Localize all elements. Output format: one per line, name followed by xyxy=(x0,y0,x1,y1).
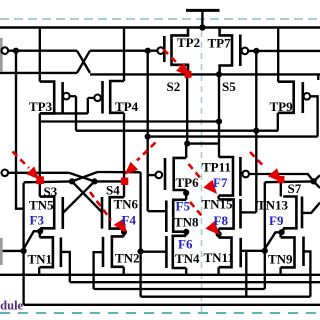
wire TN9 source xyxy=(279,267,281,274)
wire TN15 source link xyxy=(217,229,219,238)
fault arrow S4 head xyxy=(125,162,139,175)
transistor TP3 xyxy=(40,82,76,114)
wire TP9 gate corner down xyxy=(310,96,317,136)
wire TN11 source xyxy=(217,267,219,275)
wire TN1 gate jog xyxy=(61,252,70,282)
wire S2 net down xyxy=(186,74,188,143)
svg-text:TN9: TN9 xyxy=(268,252,293,267)
node TN13 source xyxy=(278,229,284,235)
bus line 2 xyxy=(70,281,320,283)
transistor TN11 xyxy=(219,238,241,268)
wire S4 lower right xyxy=(95,180,125,182)
fault arrow F8 head xyxy=(205,221,219,235)
wire S7 lower xyxy=(265,180,314,183)
wire left bubble net down xyxy=(16,51,24,209)
fault arrow F7 dashes xyxy=(189,164,203,180)
fault arrow F7 head xyxy=(203,180,217,194)
node bus y130 xyxy=(253,128,259,134)
transistor TN8 xyxy=(166,200,186,232)
transistor TN1 xyxy=(40,237,61,267)
wire right edge nub xyxy=(317,74,319,80)
svg-text:TP11: TP11 xyxy=(202,160,231,175)
svg-text:S2: S2 xyxy=(167,79,181,94)
svg-text:F3: F3 xyxy=(30,213,45,228)
svg-text:F8: F8 xyxy=(214,213,229,228)
svg-text:TP4: TP4 xyxy=(115,99,139,114)
node TN4 gate xyxy=(138,248,144,254)
fault arrow S4 dashes xyxy=(137,143,156,161)
wire TP4 drain from rail xyxy=(123,28,125,82)
bus line 3 xyxy=(94,288,265,290)
node left gate wire xyxy=(13,48,19,54)
svg-text:TP3: TP3 xyxy=(29,99,53,114)
fault arrow F4 dashes xyxy=(90,192,111,220)
fault arrow S3 head xyxy=(26,166,39,179)
wire TP3 drain to TN5 xyxy=(39,113,41,196)
wire TP9 drain from rail xyxy=(277,28,279,82)
wire TP7 gate dot net down xyxy=(255,51,257,213)
wire TP7 bubble to right edge xyxy=(248,50,320,52)
node TN11 gate xyxy=(262,248,268,254)
wire S3 net down to bus4 xyxy=(139,172,141,296)
wire mid row S2 S5 xyxy=(90,73,320,75)
wire TN1 source xyxy=(38,267,40,275)
fault arrow F4 head xyxy=(114,218,127,233)
wire bus y121 xyxy=(40,120,219,122)
wire S7 fan upper xyxy=(314,175,320,181)
node bus y121 S5 xyxy=(216,118,222,124)
svg-text:S4: S4 xyxy=(106,183,120,198)
node TN6 source xyxy=(121,229,127,235)
wire bus y136 xyxy=(148,135,318,137)
cropped gate bar lower left xyxy=(0,238,3,265)
node X right xyxy=(311,178,317,184)
transistor TN9 xyxy=(281,237,304,268)
node TN8 source xyxy=(183,229,189,235)
wire X leg to TN6 gate xyxy=(72,181,102,212)
module boundary dashed vertical xyxy=(201,20,203,312)
wire TN13 drain xyxy=(280,182,282,196)
node S5 junction xyxy=(216,71,222,77)
svg-text:F9: F9 xyxy=(269,213,284,228)
node X left 2 xyxy=(91,178,97,184)
wire TP4 drain to TN6 S4 xyxy=(123,113,125,197)
wire TP6 bubble feed xyxy=(148,174,156,176)
cropped gate bubble upper left xyxy=(2,47,9,54)
wire S5 net down xyxy=(218,74,220,157)
wire TN2 source xyxy=(123,267,125,275)
wire S3 lower horizontal xyxy=(24,180,72,183)
svg-text:TP7: TP7 xyxy=(208,36,232,51)
svg-text:TN1: TN1 xyxy=(28,252,53,267)
wire S7 fan lower xyxy=(314,181,320,188)
wire TN4 source xyxy=(185,268,187,275)
wire TN6 source link xyxy=(123,229,125,237)
node bus y143 xyxy=(184,141,190,147)
svg-text:TP6: TP6 xyxy=(176,175,200,190)
wire input left xyxy=(0,250,24,252)
transistor TP2 xyxy=(157,28,188,75)
node TP6 TN8 xyxy=(183,190,189,196)
node TN15 source xyxy=(216,231,222,237)
svg-text:TN6: TN6 xyxy=(114,197,139,212)
node X left 1 xyxy=(69,178,75,184)
transistor TN6 xyxy=(102,197,124,229)
node input left xyxy=(21,248,27,254)
svg-text:TN8: TN8 xyxy=(174,215,199,230)
transistor TN13 xyxy=(283,197,302,229)
wire X leg to TN5 gate xyxy=(63,181,95,213)
svg-text:TN4: TN4 xyxy=(175,251,200,266)
wire TN11 gate bus4 drop xyxy=(245,251,247,297)
wire TN13 source link xyxy=(265,228,283,248)
wire TP2 gate net down xyxy=(147,51,149,212)
VDD rail xyxy=(0,26,320,29)
transistor TP11 xyxy=(219,157,249,196)
fault arrow S2 dashes xyxy=(164,50,181,67)
cropped gate bubble left mid xyxy=(2,170,9,177)
wire crossover X top-left xyxy=(77,51,90,73)
svg-text:TP9: TP9 xyxy=(270,99,294,114)
wire TN8 source link xyxy=(185,232,187,236)
wire TP6 drain top xyxy=(185,144,187,158)
node bus y136 xyxy=(145,134,151,140)
transistor TN4 xyxy=(166,236,186,268)
wire crossover X bottom-left xyxy=(77,51,90,73)
transistor TN2 xyxy=(103,236,124,267)
wire bus y143 xyxy=(187,142,219,144)
svg-text:-dule: -dule xyxy=(0,298,24,312)
svg-text:TN11: TN11 xyxy=(204,250,234,265)
svg-text:F7: F7 xyxy=(213,175,228,190)
svg-text:F5: F5 xyxy=(176,199,191,214)
transistor TP9 xyxy=(278,82,310,113)
svg-text:F4: F4 xyxy=(122,213,137,228)
wire S3 lower from corner xyxy=(22,183,24,305)
svg-text:S5: S5 xyxy=(222,79,236,94)
wire S3 crossover diag up xyxy=(72,172,98,182)
node TP2 gate wire xyxy=(145,48,151,54)
transistor TN15 xyxy=(219,199,241,229)
wire TN9 gate jog xyxy=(304,251,311,296)
fault arrow S7 head xyxy=(268,168,282,182)
wire X to TP2 bubble xyxy=(90,50,157,52)
wire S7 net down xyxy=(264,182,266,289)
wire left lower to X xyxy=(0,72,77,74)
wire TP11 bubble to S7 xyxy=(249,174,313,181)
module boundary dashed top xyxy=(0,18,320,20)
wire TP6 TN8 link xyxy=(185,190,187,200)
wire TN4 gate xyxy=(141,251,167,253)
label module cropped xyxy=(0,298,24,312)
wire bus y130 xyxy=(76,130,278,132)
wire S3 crossover diag down xyxy=(69,173,95,182)
wire TP9 drain to bus xyxy=(277,113,279,131)
bus line 4 xyxy=(141,296,311,298)
fault arrow S7 dashes xyxy=(250,152,264,166)
wire TN5 TN1 link xyxy=(39,231,41,237)
wire S3 upper from bubble xyxy=(8,172,69,174)
wire TP3 drain from rail xyxy=(39,28,41,82)
wire TN13 gate diag xyxy=(302,203,320,213)
wire gate left bubble to X xyxy=(8,50,77,52)
svg-text:TN5: TN5 xyxy=(29,198,54,213)
wire TN11 gate xyxy=(241,250,265,252)
wire TN8 gate feed xyxy=(148,210,167,212)
wire TN15 gate feed xyxy=(241,211,257,213)
wire TN2 gate jog xyxy=(94,252,103,289)
fault arrow S3 dashes xyxy=(13,152,30,169)
wire S3 upper right xyxy=(98,171,141,174)
wire TP3 gate vertical xyxy=(75,96,77,131)
svg-text:TN13: TN13 xyxy=(257,198,289,213)
fault arrow F8 dashes xyxy=(190,202,204,219)
bus line 1 VSS xyxy=(0,274,320,276)
bottom rail xyxy=(24,304,320,306)
transistor TP7 xyxy=(220,28,249,75)
node TN5 source xyxy=(37,228,43,234)
transistor TP4 xyxy=(88,81,124,114)
transistor TN5 xyxy=(40,197,63,229)
svg-text:S7: S7 xyxy=(288,181,302,196)
transistor TP6 xyxy=(156,158,187,190)
svg-text:TN15: TN15 xyxy=(202,197,234,212)
wire TP3 stub extension to TP4 gate xyxy=(40,112,88,114)
svg-text:TP2: TP2 xyxy=(177,35,200,50)
module boundary dashed bottom xyxy=(0,312,320,314)
svg-text:F6: F6 xyxy=(178,237,193,252)
wire TN2 drain top xyxy=(123,232,125,236)
node TP7 gate wire xyxy=(253,48,259,54)
node VDD junction xyxy=(199,24,205,30)
cropped gate bar upper left xyxy=(0,38,3,72)
wire TP4 gate vertical xyxy=(87,98,89,114)
svg-text:TN2: TN2 xyxy=(115,251,140,266)
wire TN5 source link xyxy=(24,228,40,248)
fault arrow S2 head xyxy=(176,63,190,77)
svg-text:S3: S3 xyxy=(44,184,58,199)
wire TP11 TN15 link xyxy=(217,196,219,200)
wire TN13 TN9 link xyxy=(279,232,281,237)
VDD symbol xyxy=(186,10,220,27)
